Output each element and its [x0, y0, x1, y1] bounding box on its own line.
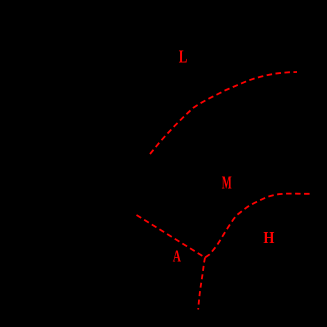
svg-text:M: M: [222, 173, 232, 193]
svg-text:L: L: [179, 47, 188, 67]
svg-text:A: A: [173, 246, 182, 265]
svg-text:H: H: [263, 228, 274, 247]
